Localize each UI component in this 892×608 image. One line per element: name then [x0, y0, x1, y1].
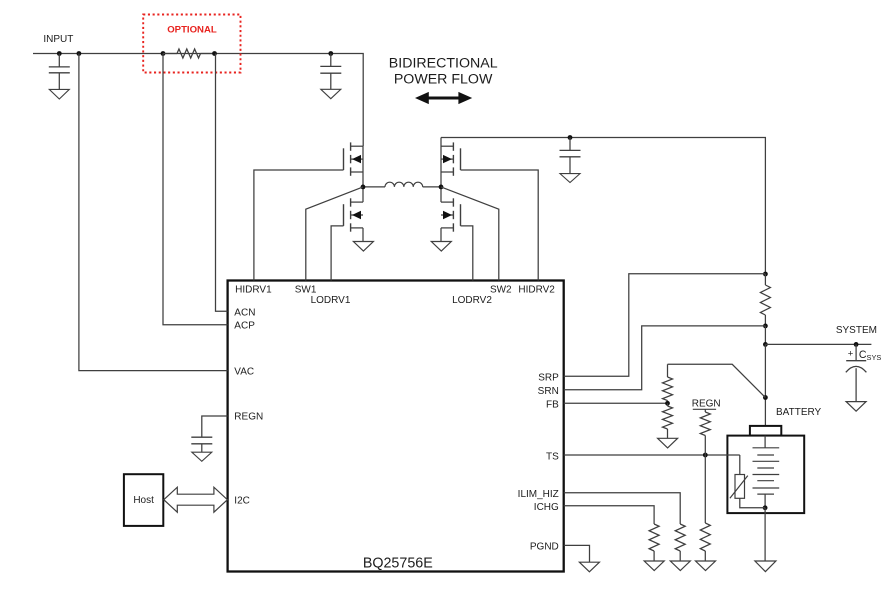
wire FB pin to divider tap	[564, 402, 668, 404]
wire HIDRV2 to Q2 gate	[461, 170, 539, 281]
wire SW1 to IC	[306, 187, 363, 281]
node TS REGN-divider junction	[703, 453, 708, 458]
resistor R_FB_top	[667, 364, 669, 377]
wire SRN to sense resistor bottom	[564, 326, 766, 390]
transistor Q1 high-side left NMOS	[350, 142, 352, 150]
wire HIDRV1 to Q1 gate	[254, 170, 344, 281]
double-headed power-flow arrow	[415, 92, 472, 104]
node SYSTEM junction	[763, 342, 768, 347]
svg-text:HIDRV1: HIDRV1	[235, 284, 272, 295]
ground under R_TS_bottom	[696, 561, 716, 571]
node SRP junction	[763, 272, 768, 277]
svg-text:REGN: REGN	[234, 412, 263, 423]
ground under R_ICHG	[644, 561, 664, 571]
node SRN junction	[763, 324, 768, 329]
resistor R_ILIM	[675, 524, 685, 551]
node input bypass cap junction	[328, 51, 333, 56]
Host box	[124, 474, 163, 526]
svg-text:VAC: VAC	[234, 366, 254, 377]
wire battery column SRN to SYSTEM node	[764, 326, 766, 345]
svg-text:Host: Host	[133, 495, 154, 506]
svg-text:LODRV1: LODRV1	[311, 295, 351, 306]
transistor Q2 high-side right NMOS	[452, 142, 454, 150]
svg-text:REGN: REGN	[692, 399, 721, 410]
ground under PGND	[579, 562, 599, 572]
svg-text:SRN: SRN	[538, 386, 559, 397]
node SW2	[439, 185, 444, 190]
wire TS to thermistor	[564, 454, 740, 456]
node FB tap	[665, 401, 670, 406]
transistor Q3 low-side left NMOS	[350, 198, 352, 206]
node resistor R_opt left terminal	[161, 51, 166, 56]
svg-text:SW2: SW2	[490, 284, 512, 295]
svg-text:I2C: I2C	[234, 495, 250, 506]
capacitor C_REGN	[201, 436, 203, 438]
wire top rail Q2 drain to battery column	[441, 138, 765, 275]
svg-text:+: +	[848, 349, 854, 360]
wire battery column SYSTEM to battery	[764, 344, 766, 426]
svg-text:LODRV2: LODRV2	[452, 295, 492, 306]
node resistor R_opt right terminal	[212, 51, 217, 56]
capacitor C3 system bypass	[569, 138, 571, 151]
wire ICHG to resistor	[564, 506, 654, 524]
battery cell plates	[764, 436, 766, 448]
svg-text:BIDIRECTIONAL: BIDIRECTIONAL	[389, 56, 498, 72]
resistor R_ICHG	[649, 524, 659, 551]
svg-text:ACP: ACP	[234, 321, 255, 332]
resistor R_TS_top REGN pullup	[704, 409, 706, 412]
capacitor C_IN input	[58, 54, 60, 67]
wire REGN pin to capacitor	[202, 416, 228, 437]
wire ILIM_HIZ to resistor	[564, 493, 681, 524]
svg-text:SRP: SRP	[538, 373, 559, 384]
capacitor C_SYS polarized	[855, 344, 857, 360]
node top rail bypass cap junction	[568, 135, 573, 140]
svg-text:ILIM_HIZ: ILIM_HIZ	[518, 489, 559, 500]
wire LODRV1 to Q3 gate	[331, 226, 343, 281]
wire thermistor bottom to battery negative	[740, 498, 765, 508]
ground under battery	[755, 561, 776, 572]
inductor L1	[363, 186, 385, 188]
wire input rail	[33, 54, 363, 147]
wire SRP to sense resistor top	[564, 274, 766, 377]
wire VAC sense from input rail	[79, 54, 228, 371]
svg-text:INPUT: INPUT	[43, 34, 73, 45]
svg-text:BQ25756E: BQ25756E	[363, 555, 433, 571]
wire Q1 drain-source lead	[362, 146, 364, 187]
wire SW2 to IC	[441, 187, 499, 281]
svg-text:SW1: SW1	[295, 284, 317, 295]
wire PGND to ground	[564, 545, 590, 562]
resistor R_opt (optional, in series)	[163, 53, 177, 55]
wire battery negative to ground	[764, 508, 766, 561]
ground under Q3	[353, 242, 373, 252]
svg-text:ACN: ACN	[234, 307, 255, 318]
node battery negative junction	[763, 505, 768, 510]
svg-text:BATTERY: BATTERY	[776, 407, 822, 418]
resistor R_FB_bottom	[667, 403, 669, 406]
svg-text:FB: FB	[546, 400, 559, 411]
ground under R_FB_bottom	[658, 438, 678, 448]
wire Q4 source to ground	[440, 228, 442, 242]
ground under C_SYS	[846, 402, 866, 412]
resistor R_SR current sense	[764, 274, 766, 285]
capacitor C2 input bypass	[330, 54, 332, 67]
svg-text:PGND: PGND	[530, 541, 559, 552]
thermistor RT1	[735, 475, 745, 499]
ground under Q4	[431, 242, 451, 252]
node input rail branch VAC	[77, 51, 82, 56]
svg-text:TS: TS	[546, 451, 559, 462]
resistor R_TS_bottom	[704, 455, 706, 523]
wire Q3 source to ground	[362, 228, 364, 242]
svg-text:ICHG: ICHG	[534, 502, 559, 513]
ground under R_ILIM	[670, 561, 690, 571]
wire Q3 drain lead from SW node	[362, 187, 364, 202]
wire ACN from R_opt right	[216, 54, 228, 312]
node FB divider tap to battery junction	[763, 395, 768, 400]
node C_SYS junction	[854, 342, 859, 347]
node SW1	[361, 185, 366, 190]
svg-text:HIDRV2: HIDRV2	[518, 284, 555, 295]
IC U1 BQ25756E body	[228, 281, 564, 572]
transistor Q4 low-side right NMOS	[452, 198, 454, 206]
I2C bidirectional bus arrow	[164, 487, 228, 512]
wire Q4 drain lead from SW node	[440, 187, 442, 202]
wire Q2 drain-source lead	[440, 138, 442, 187]
wire LODRV2 to Q4 gate	[461, 226, 473, 281]
svg-text:SYSTEM: SYSTEM	[836, 325, 877, 336]
node input-cap junction	[57, 51, 62, 56]
REGN net stub	[693, 408, 716, 410]
wire FB top divider diagonal to battery column	[668, 364, 766, 397]
dashed box OPTIONAL	[143, 15, 240, 73]
wire SYSTEM net	[765, 343, 871, 345]
svg-text:POWER FLOW: POWER FLOW	[394, 72, 493, 88]
wire ACP from R_opt left	[163, 54, 228, 325]
battery box BT1	[727, 436, 804, 513]
battery terminal cap	[750, 426, 781, 436]
svg-text:OPTIONAL: OPTIONAL	[167, 24, 217, 35]
